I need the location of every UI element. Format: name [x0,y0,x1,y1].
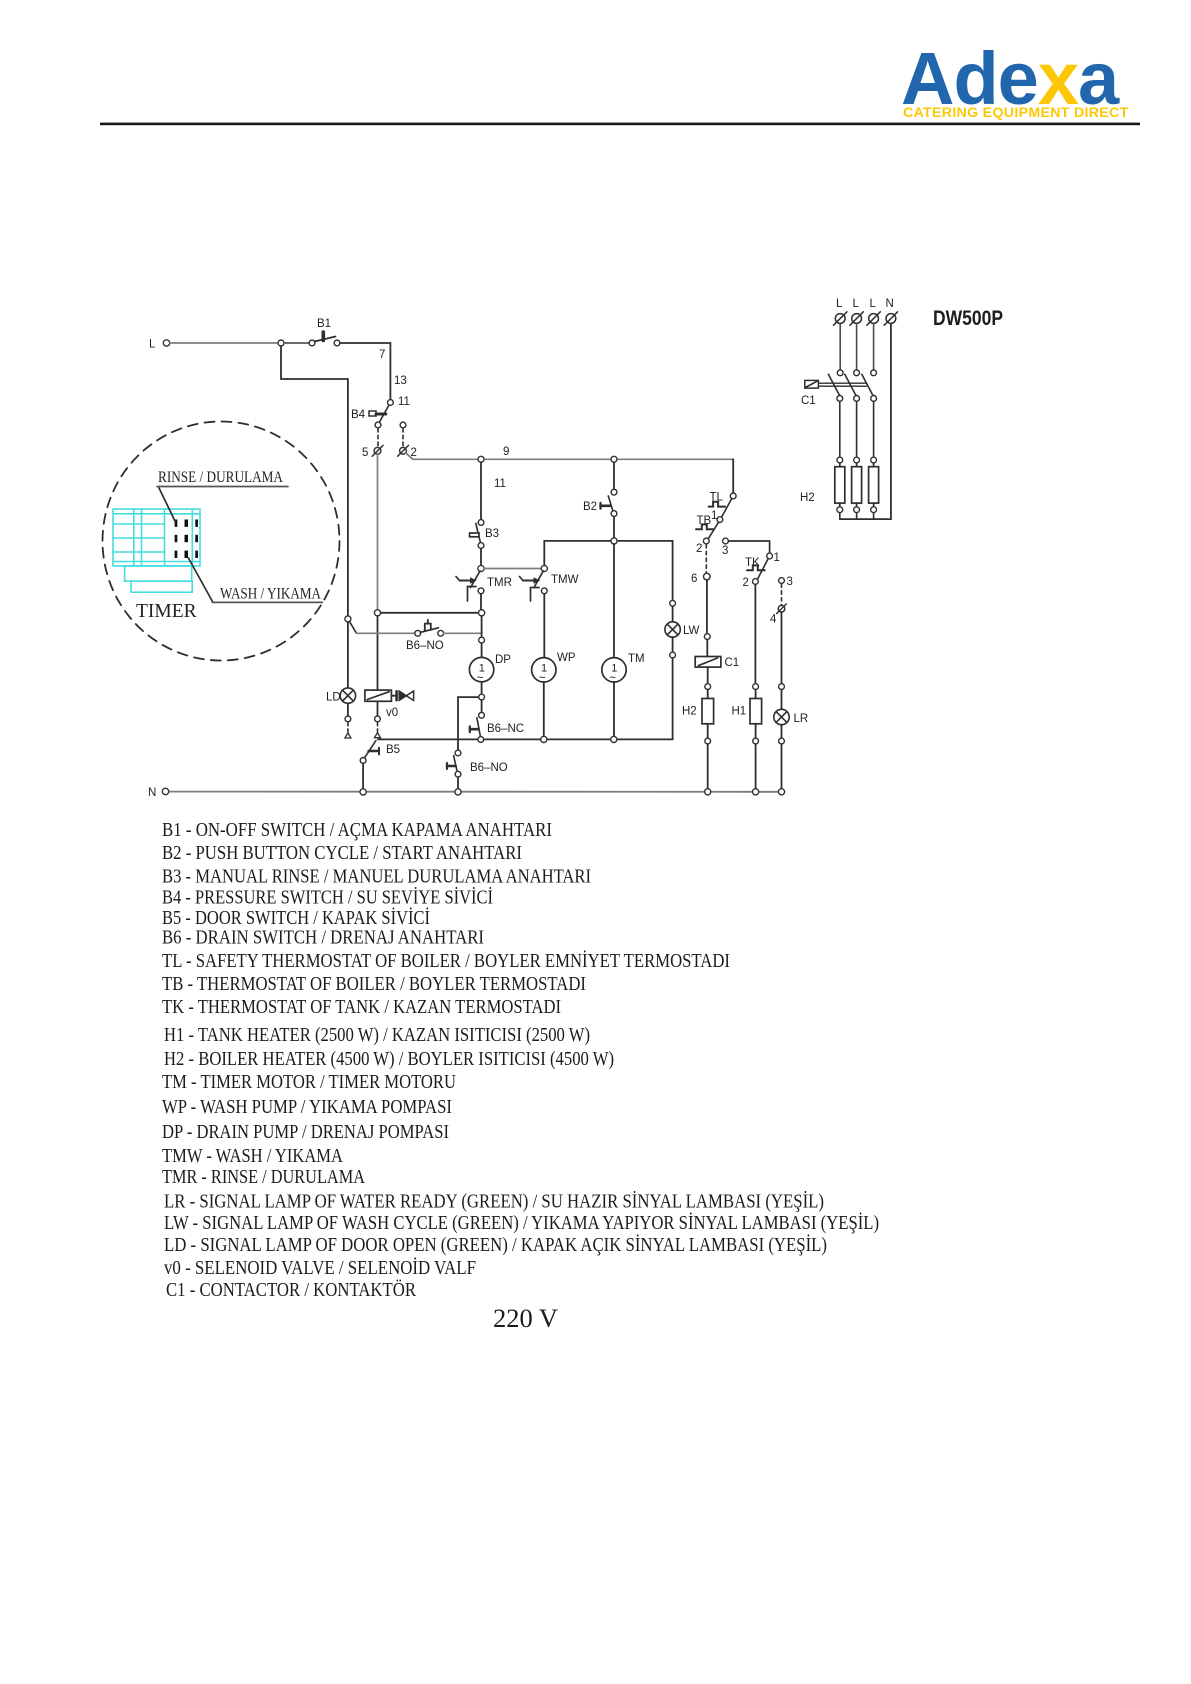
svg-text:L: L [149,339,156,351]
svg-text:TMW - WASH / YIKAMA: TMW - WASH / YIKAMA [162,1145,343,1167]
wire B6-NO upper rail [357,632,415,634]
wire H1 down [755,724,757,738]
svg-text:v0 - SELENOID VALVE / SELENOİD: v0 - SELENOID VALVE / SELENOİD VALF [164,1256,476,1279]
node LD bottom [345,716,351,722]
junction x377 / link rail [374,610,380,616]
wire LW lamp down [672,637,674,652]
wire TMR to junction [480,594,482,610]
wire 9 horizontal [413,458,733,460]
wire to LR lamp [781,690,783,710]
wire LW column top [672,541,674,600]
svg-text:B4 - PRESSURE SWITCH / SU SEVİ: B4 - PRESSURE SWITCH / SU SEVİYE SİVİCİ [162,886,493,909]
svg-text:B6 - DRAIN SWITCH / DRENAJ ANA: B6 - DRAIN SWITCH / DRENAJ ANAHTARI [162,927,484,949]
wire B3 to TMR junction [480,549,482,566]
node LW bottom [670,652,676,658]
svg-text:C1: C1 [801,395,816,407]
timer contact TMR [456,571,512,601]
node C1 top [704,634,710,640]
leader rinse [159,488,175,522]
lamp LD [326,688,356,704]
wire H2 down [707,724,709,738]
wire N drop to heater bus [840,324,891,519]
drain switch B6-NO (lower) [447,750,508,777]
svg-text:B1: B1 [317,318,331,330]
wire TB pin3 to TK [729,541,770,553]
switch B3 [470,520,499,549]
svg-text:C1 - CONTACTOR / KONTAKTÖR: C1 - CONTACTOR / KONTAKTÖR [166,1278,417,1301]
wire pin6 to C1 coil [706,580,708,634]
svg-text:TB - THERMOSTAT OF BOILER / BO: TB - THERMOSTAT OF BOILER / BOYLER TERMO… [162,973,586,995]
wire H1 to N [755,744,757,792]
junction under B1 [278,340,284,346]
terminal L [163,340,169,346]
junction wire9 / B2 branch [611,456,617,462]
wire B1 to corner 7 [340,342,390,344]
svg-text:TMR: TMR [487,577,512,589]
svg-text:B1 - ON-OFF SWITCH / AÇMA KAPA: B1 - ON-OFF SWITCH / AÇMA KAPAMA ANAHTAR… [162,819,552,841]
wire B2 junction to TM motor [613,544,615,658]
svg-text:1: 1 [774,552,780,564]
node pin 4 [778,605,785,612]
node LR bottom [779,738,785,744]
svg-text:L: L [836,298,843,310]
wire LR down [781,725,783,738]
motor WP [532,652,576,685]
leader wash [188,558,212,601]
thermostat TL [709,492,737,518]
wire DP motor down [481,682,483,694]
junction B5 / N [360,789,366,795]
wire TMW to WP motor [543,594,545,658]
wire contact3 to heater [873,401,875,457]
node LW top [670,600,676,606]
mech link v0 to B5 [377,723,379,732]
svg-text:TM - TIMER MOTOR / TIMER MOTOR: TM - TIMER MOTOR / TIMER MOTORU [162,1071,456,1093]
svg-text:L: L [853,298,860,310]
wire TK pin2 to H1 [754,585,756,684]
wire stub to B6-NO rail [350,622,357,634]
timer drum cyan [113,509,200,592]
wire heater to bus c [873,513,875,519]
svg-text:LR - SIGNAL LAMP OF WATER READ: LR - SIGNAL LAMP OF WATER READY (GREEN) … [164,1190,824,1213]
svg-text:9: 9 [503,446,509,458]
lamp LR [774,709,808,725]
wire link rail y613 [381,612,479,614]
svg-text:B4: B4 [351,409,366,421]
svg-text:11: 11 [494,478,506,490]
wire 9 from pin2 [406,453,413,459]
svg-text:3: 3 [722,545,728,557]
node pin 5 [374,447,381,454]
solenoid valve v0 coil [365,690,392,701]
node TB pin3 [723,538,729,544]
svg-text:B3 - MANUAL RINSE / MANUEL DUR: B3 - MANUAL RINSE / MANUEL DURULAMA ANAH… [162,866,591,888]
svg-text:LW: LW [683,625,700,637]
wire N line [169,791,778,793]
heater bank terminals bottom [837,507,843,513]
svg-text:TIMER: TIMER [136,601,197,622]
node TK pin1 [767,553,773,559]
wire riser x348 down [347,379,349,616]
node TMW top [541,565,547,571]
heater element H2a [835,463,845,507]
heater bank H2 terminals top [837,457,843,463]
node H2 bottom [705,738,711,744]
wire H2 to N [707,744,709,792]
node TL/TB pin1 [717,517,723,523]
pressure switch B4 [351,405,406,447]
svg-text:1: 1 [711,510,717,522]
svg-text:L: L [870,298,877,310]
mech link TB pin2 to pin6 [705,545,707,573]
wire LD down [347,703,349,716]
svg-text:B6–NC: B6–NC [487,723,524,735]
wire L2 drop [856,324,858,370]
svg-text:B2 - PUSH BUTTON CYCLE / START: B2 - PUSH BUTTON CYCLE / START ANAHTARI [162,842,522,864]
svg-text:H1: H1 [732,706,747,718]
svg-text:H2: H2 [682,706,697,718]
svg-text:11: 11 [398,396,410,408]
svg-text:~: ~ [477,673,484,685]
svg-text:B6–NO: B6–NO [470,762,508,774]
contactor coil C1 [695,657,739,670]
svg-text:v0: v0 [386,707,398,719]
drain switch B6-NO (upper) [406,620,444,652]
svg-text:LR: LR [794,713,809,725]
wire B6-NO lower to N [457,777,459,789]
svg-text:TM: TM [628,653,645,665]
wire L3 drop [873,324,875,370]
wire to H1 [755,690,757,699]
wire coil down [707,667,709,683]
wire LW to rail y739 [672,658,674,739]
motor TM [602,653,645,685]
wire contact1 to heater [839,401,841,457]
wire contact2 to heater [856,401,858,457]
svg-text:B2: B2 [583,501,597,513]
wire rail y739 [378,738,673,740]
node H2 top [705,684,711,690]
wire B2 to junction [613,517,615,538]
heater element H2b [852,463,862,507]
svg-text:~: ~ [539,673,546,685]
wire LR to N [781,744,783,789]
wire v0 down [377,701,379,716]
svg-text:H2 - BOILER HEATER (4500 W) /: H2 - BOILER HEATER (4500 W) / BOYLER ISI… [164,1048,614,1070]
thermostat TK [745,557,768,579]
svg-text:6: 6 [691,573,697,585]
wire TMR-TMW link [484,568,541,570]
heater element H2c [869,463,879,507]
wire L to junction [170,342,278,344]
svg-text:B5: B5 [386,744,400,756]
supply terminals L L L N [836,298,894,310]
node H1 top [753,684,759,690]
timer cam dashes [175,520,198,559]
svg-text:TL - SAFETY THERMOSTAT OF BOIL: TL - SAFETY THERMOSTAT OF BOILER / BOYLE… [162,949,730,972]
wire to coil [706,640,708,657]
dashed timer bubble [103,422,340,661]
svg-text:7: 7 [379,349,385,361]
supply entry symbols [834,312,898,325]
junction link rail / DP column [479,610,485,616]
svg-text:N: N [148,787,156,799]
timer contact TMW [520,571,579,601]
push button B2 [583,489,617,516]
wire B2 column top [613,462,615,489]
svg-text:2: 2 [696,543,702,555]
svg-text:TMR - RINSE / DURULAMA: TMR - RINSE / DURULAMA [162,1166,365,1188]
wire corner down to pin 11 [389,343,391,400]
svg-text:2: 2 [743,577,749,589]
junction H1 / N [753,789,759,795]
wire pin4 to LR [781,612,783,683]
svg-text:~: ~ [609,673,616,685]
svg-text:H1 - TANK HEATER (2500 W) / KA: H1 - TANK HEATER (2500 W) / KAZAN ISITIC… [164,1024,590,1046]
svg-text:220 V: 220 V [493,1303,558,1333]
node H1 bottom [753,738,759,744]
svg-text:DW500P: DW500P [933,306,1003,330]
wire to DP motor [481,643,483,657]
svg-text:RINSE / DURULAMA: RINSE / DURULAMA [158,469,283,486]
node stub junction x348 [345,616,351,622]
switch B1 [309,318,340,346]
node pin 2 [400,447,407,454]
wire x377 riser to v0 [377,616,379,690]
mech end triangle [345,733,351,738]
wire 9 corner down to TL [732,459,734,493]
node pin 6 [704,573,711,580]
terminal N [162,788,168,794]
wire TM motor down [613,682,615,736]
svg-text:WP - WASH PUMP / YIKAMA POMPAS: WP - WASH PUMP / YIKAMA POMPASI [162,1096,452,1118]
wire B6-NO upper to DP column [444,632,482,634]
svg-text:WP: WP [557,652,576,664]
mech link TK pin3 to pin4 [781,584,783,605]
wire L1 drop [839,324,841,370]
wire TMW up to y541 rail [543,541,545,566]
junction TMR top [478,565,484,571]
motor DP [469,654,511,685]
wire B3 column top [480,462,482,519]
junction wire9 / B3 branch [478,456,484,462]
junction TM / rail [611,736,617,742]
valve body v0 [386,691,414,719]
node pin 11 [388,400,394,406]
svg-text:4: 4 [770,614,777,626]
wire B5 to N [362,763,364,788]
svg-text:H2: H2 [800,492,815,504]
node TK pin3 [779,578,785,584]
wire junction down-right to x348 riser [281,346,348,379]
drain switch B6-NC [470,712,524,742]
junction LR / N end [778,789,784,795]
svg-text:3: 3 [787,576,793,588]
junction WP / rail [541,736,547,742]
svg-text:N: N [886,298,894,310]
svg-text:B3: B3 [485,528,499,540]
wire DP column upper [481,616,483,637]
junction DP bottom [479,694,485,700]
svg-text:C1: C1 [725,657,740,669]
svg-text:CATERING EQUIPMENT DIRECT: CATERING EQUIPMENT DIRECT [903,105,1129,121]
svg-text:LD - SIGNAL LAMP OF DOOR OPEN: LD - SIGNAL LAMP OF DOOR OPEN (GREEN) / … [164,1233,827,1256]
node TB pin2 [703,538,709,544]
resistor H2 [702,699,714,724]
svg-text:DP: DP [495,654,511,666]
wire riser to LD lamp [347,622,349,688]
node DP top [479,637,485,643]
header rule [100,123,1140,126]
wire DP to B6-NC [481,700,483,712]
wire to H2 [707,690,709,699]
door switch B5 [360,733,400,764]
svg-text:5: 5 [362,447,368,459]
contactor C1 main contacts [801,370,876,407]
wire to LW lamp [672,606,674,622]
svg-text:TMW: TMW [551,574,579,586]
junction B2 / y541 rail [611,538,617,544]
wire WP motor down [543,682,545,736]
svg-text:TK - THERMOSTAT OF TANK / KAZA: TK - THERMOSTAT OF TANK / KAZAN TERMOSTA… [162,996,561,1018]
wire junction to B1 [284,342,309,344]
wire rail y541 [544,540,672,542]
svg-text:WASH / YIKAMA: WASH / YIKAMA [220,586,321,603]
svg-text:B6–NO: B6–NO [406,640,444,652]
wire 5 vertical grey [377,455,379,610]
wire heater to bus a [839,513,841,519]
node LR top [779,684,785,690]
svg-text:LW - SIGNAL LAMP OF WASH CYCLE: LW - SIGNAL LAMP OF WASH CYCLE (GREEN) /… [164,1211,879,1234]
svg-text:13: 13 [394,375,407,387]
svg-text:DP - DRAIN PUMP / DRENAJ POMPA: DP - DRAIN PUMP / DRENAJ POMPASI [162,1121,449,1143]
junction B6-NO / N line [455,789,461,795]
wire heater to bus b [856,513,858,519]
thermostat TB [696,515,719,539]
resistor H1 [750,699,762,724]
junction H2 / N [705,789,711,795]
node v0 bottom [375,716,381,722]
lamp LW [665,622,700,637]
node TK pin2 [753,579,759,585]
mech link LD to B5 [347,723,349,733]
wire DP bypass to B6-NO lower [458,697,479,750]
logo Adexa wordmark [901,37,1129,121]
svg-text:LD: LD [326,692,341,704]
